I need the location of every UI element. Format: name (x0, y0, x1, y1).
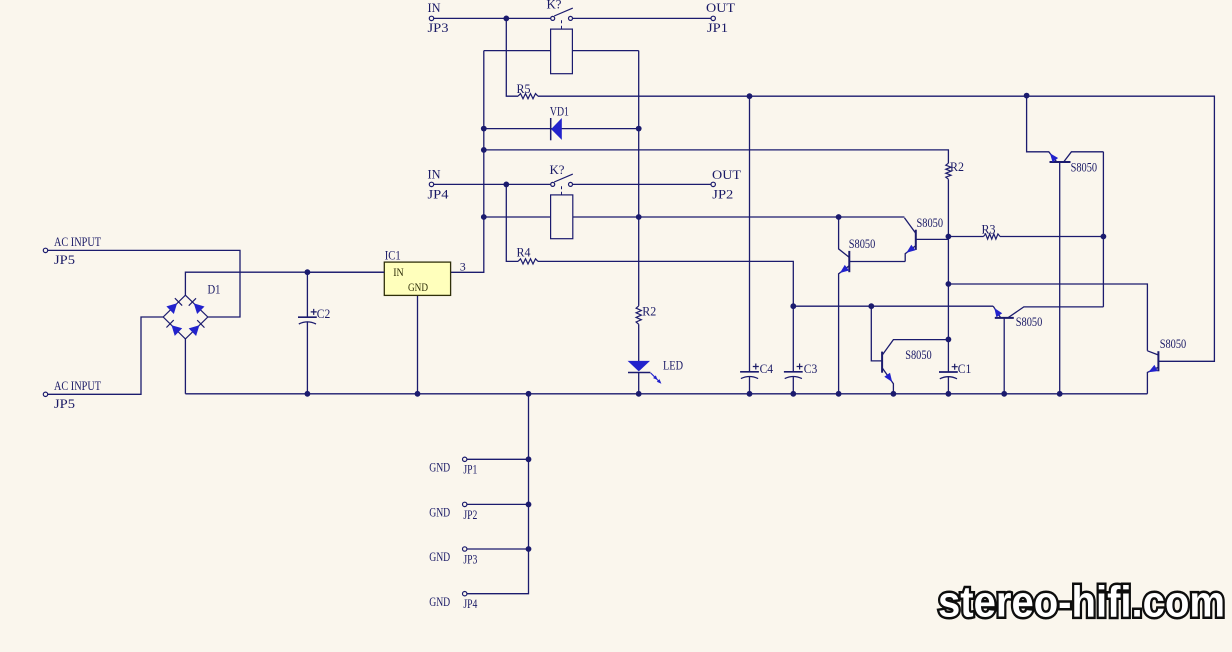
terminal JP2 (711, 182, 715, 186)
svg-text:JP5: JP5 (54, 252, 75, 267)
wire bridge bottom to rail (184, 339, 186, 394)
diode VD1 (551, 118, 562, 140)
wire bridge top to IC1 input (185, 272, 384, 295)
svg-text:S8050: S8050 (849, 236, 876, 251)
svg-text:K?: K? (547, 0, 562, 11)
svg-text:S8050: S8050 (917, 215, 944, 230)
op-amp IC1 regulator box (384, 262, 450, 295)
wire 306 line (793, 305, 993, 307)
node JP3 junction (503, 16, 509, 22)
svg-text:C1: C1 (958, 361, 972, 376)
node relay2 right (636, 214, 642, 220)
wire R2b to C1 (947, 179, 949, 372)
svg-text:JP1: JP1 (463, 462, 477, 477)
node C4 top (747, 93, 753, 99)
node VD1 right (636, 126, 642, 132)
svg-text:C3: C3 (804, 361, 818, 376)
wire AC input bottom (48, 317, 163, 394)
svg-text:R4: R4 (517, 244, 531, 259)
node Q6 emitter ground (891, 391, 897, 397)
node IC1 ground (415, 391, 421, 397)
wire C2 node to IC1 IN (307, 271, 384, 273)
node C1 ground (946, 391, 952, 397)
wire center bus bottom (638, 372, 640, 393)
svg-text:S8050: S8050 (1016, 314, 1043, 329)
wire Q2 base (916, 238, 949, 240)
node Q3 base ground (1057, 391, 1063, 397)
capacitor C1 (939, 361, 971, 394)
wire GND JP3 row (467, 548, 529, 550)
node JP4 junction (503, 182, 509, 188)
node GND JP3 (526, 546, 532, 552)
wire R3 left lead (948, 236, 983, 238)
LED D2 (628, 361, 662, 384)
node Q4 base ground (1001, 391, 1007, 397)
node C3 ground (790, 391, 796, 397)
transistor Q4 S8050 (993, 306, 1103, 394)
wire JP3 to K1 switch (434, 17, 551, 19)
svg-text:GND: GND (429, 505, 450, 520)
wire R5 to right rail and Q5 base (538, 96, 1214, 361)
svg-text:IN: IN (428, 0, 442, 15)
terminal GND JP4 (463, 592, 467, 596)
terminal JP1 (711, 16, 715, 20)
svg-text:IN: IN (428, 166, 442, 181)
svg-text:R2: R2 (950, 159, 964, 174)
wire R4 to C3 node (538, 261, 793, 306)
svg-text:JP2: JP2 (712, 186, 733, 201)
wire JP4 to K2 switch (434, 183, 551, 185)
relay K2 coil (551, 195, 573, 239)
wire left bus to IC1 pin 3 (451, 51, 484, 273)
wire 150 line to R2b (484, 150, 949, 163)
terminal GND JP2 (463, 502, 467, 506)
node R3 left (946, 234, 952, 240)
node 284 junction (946, 281, 952, 287)
svg-text:JP2: JP2 (463, 507, 477, 522)
resistor R5 (518, 94, 538, 99)
svg-text:S8050: S8050 (1160, 336, 1187, 351)
svg-text:GND: GND (429, 460, 450, 475)
svg-text:AC INPUT: AC INPUT (54, 234, 101, 249)
relay K1 coil (551, 29, 573, 74)
wire R3 right lead (1000, 236, 1103, 238)
svg-text:R2: R2 (642, 304, 656, 319)
svg-text:GND: GND (429, 549, 450, 564)
transistor Q5 S8050 (1147, 351, 1158, 394)
node R3 right (1101, 234, 1107, 240)
svg-text:JP4: JP4 (463, 596, 477, 611)
svg-text:JP3: JP3 (428, 20, 449, 35)
wire center bus middle (638, 324, 640, 361)
transistor Q1 S8050 (839, 217, 906, 394)
wire GND header bus (467, 394, 529, 594)
wire relay K1 coil right (572, 50, 638, 52)
wire Q3-Q4 collector bus (1102, 152, 1104, 307)
node GND bus top (526, 391, 532, 397)
wire node A feed to R5 (506, 18, 518, 96)
node Q1 collector (836, 214, 842, 220)
node Q6 base junction (868, 303, 874, 309)
resistor R2 right (946, 163, 951, 179)
terminal GND JP3 (463, 547, 467, 551)
svg-text:stereo-hifi.com: stereo-hifi.com (938, 578, 1225, 627)
node Q3 emitter top (1024, 93, 1030, 99)
node GND JP1 (526, 456, 532, 462)
svg-text:OUT: OUT (712, 167, 741, 182)
wire C4 branch (749, 96, 751, 371)
wire node B feed to R4 (506, 184, 518, 261)
svg-text:GND: GND (408, 280, 428, 294)
capacitor C4 (740, 361, 773, 394)
terminal GND JP1 (463, 457, 467, 461)
wire center bus top (638, 51, 640, 306)
node LED ground (636, 391, 642, 397)
wire relay K2 coil left (484, 216, 551, 218)
wire ground rail (185, 393, 1147, 395)
svg-text:S8050: S8050 (905, 347, 932, 362)
wire AC input top (48, 250, 240, 317)
node C2 ground (305, 391, 311, 397)
wire K2 switch to JP2 (573, 183, 711, 185)
svg-text:3: 3 (460, 260, 466, 274)
bridge rectifier D1 (163, 295, 208, 339)
svg-text:JP3: JP3 (463, 551, 477, 566)
wire relay K1 coil left (484, 50, 551, 52)
node C1 top (946, 337, 952, 343)
capacitor C3 (784, 306, 817, 394)
svg-text:C4: C4 (760, 361, 774, 376)
relay K2 switch contacts (551, 174, 573, 195)
node C2 top (305, 269, 311, 275)
svg-text:GND: GND (429, 594, 450, 609)
node GND JP2 (526, 502, 532, 508)
node C4 ground (747, 391, 753, 397)
svg-text:S8050: S8050 (1071, 159, 1098, 174)
wire relay K2 coil right (573, 216, 905, 218)
transistor Q3 S8050 (1027, 96, 1104, 394)
node Q1 emitter ground (836, 391, 842, 397)
wire Q6 base feed (871, 306, 882, 361)
svg-text:JP5: JP5 (54, 396, 75, 411)
wire GND JP2 row (467, 503, 529, 505)
svg-text:LED: LED (663, 357, 683, 372)
terminal JP5 bottom (43, 392, 47, 396)
svg-text:R5: R5 (517, 81, 531, 96)
terminal JP5 top (43, 248, 47, 252)
svg-text:OUT: OUT (706, 0, 735, 15)
wire VD1 line (484, 128, 639, 130)
node relay2 left (481, 214, 487, 220)
resistor R2 center (636, 306, 641, 324)
transistor Q6 S8050 (882, 340, 948, 394)
terminal JP3 (429, 16, 433, 20)
svg-text:VD1: VD1 (550, 103, 569, 118)
terminal JP4 (429, 182, 433, 186)
node C3 top (790, 303, 796, 309)
resistor R3 (984, 234, 1001, 239)
wire K1 switch to JP1 (573, 17, 711, 19)
svg-text:C2: C2 (317, 306, 331, 321)
svg-text:JP4: JP4 (428, 186, 450, 201)
svg-text:K?: K? (550, 162, 565, 177)
svg-text:IC1: IC1 (385, 247, 401, 262)
node 150-line left (481, 147, 487, 153)
svg-text:IN: IN (393, 265, 404, 279)
svg-text:R3: R3 (982, 222, 996, 237)
wire IC1 GND pin (417, 295, 419, 393)
transistor Q2 S8050 (904, 218, 915, 262)
svg-text:AC INPUT: AC INPUT (54, 378, 101, 393)
wire 284 line to Q5 collector (948, 284, 1147, 351)
wire GND JP1 row (467, 458, 529, 460)
node VD1 left (481, 126, 487, 132)
svg-text:D1: D1 (208, 281, 221, 296)
relay K1 switch contacts (551, 8, 573, 29)
resistor R4 (518, 259, 538, 264)
capacitor C2 (298, 272, 330, 394)
svg-text:JP1: JP1 (707, 20, 728, 35)
